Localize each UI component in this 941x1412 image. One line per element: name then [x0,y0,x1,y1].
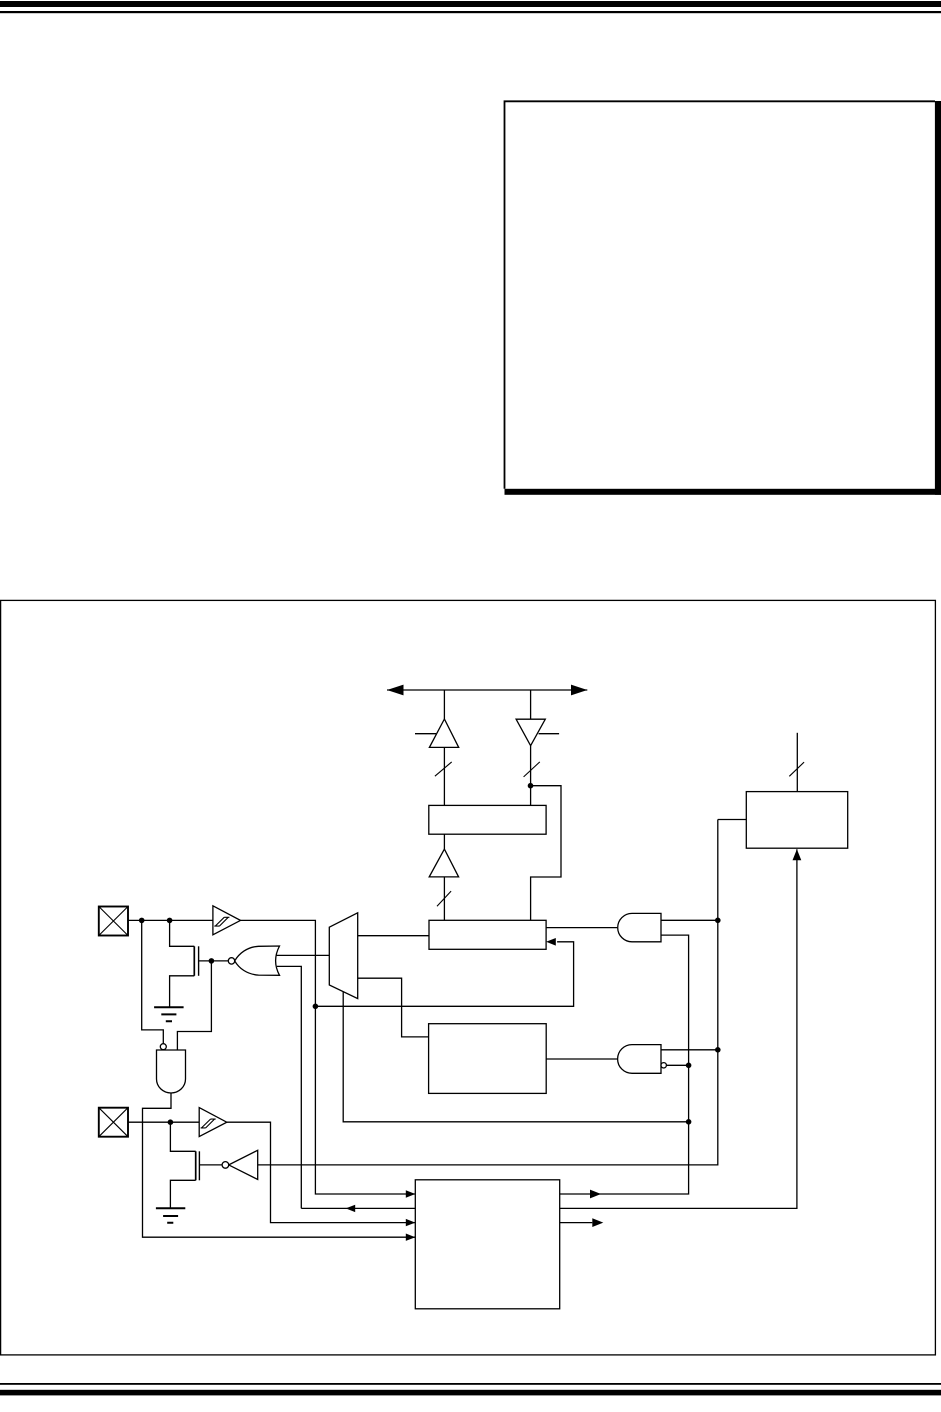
register TMR1H [429,805,546,834]
arrowhead into TMR1L right edge [546,938,556,946]
bus-width slash [437,891,451,906]
wire A2 bubble input [666,1064,688,1066]
mux M1 [329,913,357,999]
footer thin rule [0,1383,941,1385]
inverter I1 (faces left) [229,1150,258,1179]
pin pad T1OSO [99,907,128,936]
wire TMR1L clock feed [315,942,573,1007]
data bus wire [387,689,587,691]
note box thin top/left border [505,101,936,489]
node pin2 to Q2 drain [168,1119,174,1125]
footer thick rule [0,1390,941,1396]
buffer up enable tick [415,733,436,735]
transistor Q1 source [170,976,195,1008]
wire TMR1H to internal buffer [443,834,445,849]
A2 inverted input bubble [661,1063,666,1068]
wire A1 upper input [661,919,718,921]
NAND N1 input bubble [160,1044,166,1050]
wire buffer down to TMR1H [530,746,532,806]
header thin rule [0,11,941,13]
node A2 bubble wire junction [686,1063,692,1069]
sync block box [746,792,847,849]
arrowhead N1 path into control box [406,1234,416,1241]
pin pad T1OSI X [99,1108,128,1137]
wire enable rail to sync block [718,819,747,821]
transistor Q1 gate lead [199,960,229,962]
arrowhead stub (set flag) [592,1218,603,1227]
transistor Q2 channel [195,1151,197,1180]
transistor Q1 gate plate [198,946,200,976]
prescaler box [429,1024,547,1094]
tri-state buffer up [429,719,458,747]
ground GND1 [154,1007,184,1021]
wire pin1 to buffer B1 [128,919,213,921]
NAND gate N1 (faces down) [157,1050,186,1093]
wire bus to read buffer [443,690,445,719]
wire buffer to TMR1H with bus slash [443,747,445,805]
transistor Q2 gate plate [198,1151,200,1180]
wire mux lower output to prescaler [358,978,429,1037]
wire A2 upper input [661,1049,718,1051]
arrowhead control to A1 [590,1190,601,1199]
bus right arrowhead [571,685,587,696]
node clock junction [313,1004,319,1010]
wire B2 output to control box input 3 [227,1122,415,1222]
arrowhead B2 path into control box [406,1219,416,1226]
wire control box output to NOR path [301,1207,415,1209]
transistor Q1 channel [193,946,195,976]
wire N1 output to control box input 4 [143,1093,416,1237]
AND gate A1 (faces left) [618,913,661,941]
node A1 upper input [715,918,721,924]
wire write branch around register [531,786,562,921]
arrowhead B1 path into control box [406,1190,416,1197]
B1 hysteresis glyph [214,917,229,926]
AND gate A2 (faces left) [618,1045,661,1074]
transistor Q2 gate lead [199,1164,222,1166]
NOR output bubble [228,958,234,964]
bus-width slash [524,762,540,777]
wire sync clock stub with slash [796,733,798,792]
wire bus to write buffer [530,690,532,719]
wire mux select [343,992,688,1122]
transistor Q2 source [170,1180,195,1208]
note box thick bottom bar [505,489,941,495]
wire A1 lower input down to control box output [560,935,689,1194]
bus left arrowhead [387,685,404,696]
B2 hysteresis glyph [201,1119,216,1128]
bus-width slash [789,762,804,776]
node A2 upper input [715,1047,721,1053]
buffer down enable tick [539,733,560,735]
node pin1 to NAND [139,918,145,924]
wire control box to sync arrow stub [560,1222,593,1224]
pin pad T1OSI [99,1108,128,1137]
tri-state buffer down [516,719,545,746]
wire enable rail to inverter input [258,820,718,1165]
ground GND2 [156,1208,185,1223]
wire mux output to TMR1L [358,935,429,937]
Schmitt buffer B1 [213,906,241,935]
arrowhead control box output (points left) [346,1205,356,1212]
wire B1 output to control box input 1 [241,920,416,1194]
wire TMR1L overflow to AND gate A1 [546,927,617,929]
register TMR1L [429,920,546,949]
header thick rule [0,1,941,7]
wire pin2 to buffer B2 [128,1121,199,1123]
node select line junction [686,1119,692,1125]
wire NOR lower input from control box [277,966,301,1208]
pin pad T1OSO X [99,907,128,936]
control box T1CON [415,1180,559,1309]
figure frame [1,600,936,1355]
transistor Q1 drain [170,920,195,946]
transistor Q2 drain [170,1122,195,1151]
wire pin1 net to NAND N1 bubbled input [142,920,164,1043]
wire Q1 gate net to NAND N1 input [177,961,211,1050]
node Q1 gate [209,958,215,964]
node write branch [528,783,534,789]
node pin1 to Q1 drain [167,918,173,924]
inverter I1 bubble [222,1162,229,1169]
wire control box to sync block [560,849,797,1208]
wire prescaler to AND gate A2 [546,1058,617,1060]
note box thick right bar [935,101,941,495]
bus-width slash [435,762,452,776]
wire NOR upper input from mux side [276,954,330,956]
wire internal buffer to TMR1L with slash [443,877,445,920]
Schmitt buffer B2 [199,1108,227,1137]
arrowhead into sync block bottom [793,849,802,860]
NOR gate G1 (faces left) [235,946,280,975]
internal buffer up [429,849,458,877]
